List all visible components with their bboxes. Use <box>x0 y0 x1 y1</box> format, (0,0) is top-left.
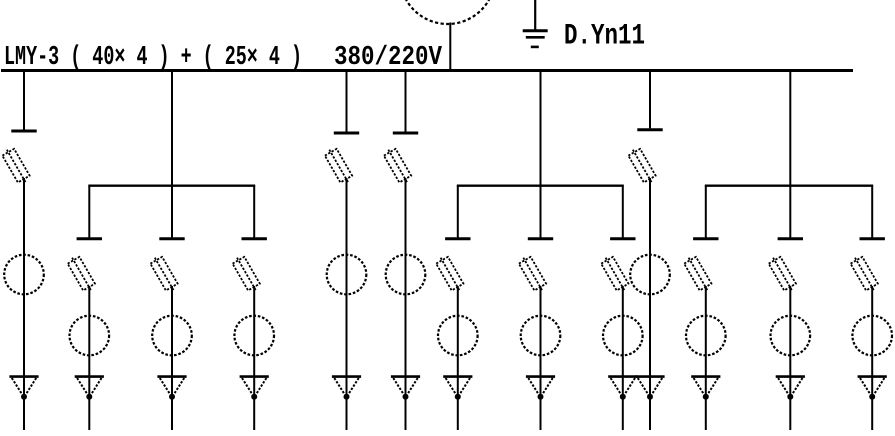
fuse FUF3 <box>849 254 880 293</box>
meter circle branch D3 <box>603 316 643 356</box>
wire branch D2 drop <box>540 186 542 238</box>
wire group D feeder drop <box>540 71 542 187</box>
load arrow feeder 5 <box>332 377 361 400</box>
wire feeder 6 main vertical <box>405 178 407 430</box>
switch contact bar feeder 7 <box>637 128 662 131</box>
fuse FUB1 <box>66 254 97 293</box>
load arrow branch F1 <box>691 377 720 400</box>
wire branch D2 main vertical <box>540 286 542 430</box>
sub-bus D <box>457 184 624 186</box>
wire branch F1 main vertical <box>705 286 707 430</box>
wire branch D3 drop <box>622 186 624 238</box>
fuse FUD2 <box>517 254 548 293</box>
meter circle branch B2 <box>152 316 192 356</box>
wire branch F2 drop <box>789 186 791 238</box>
load arrow branch B2 <box>157 377 186 400</box>
load arrow branch D3 <box>608 377 637 400</box>
load arrow branch F2 <box>776 377 805 400</box>
wire branch D1 main vertical <box>457 286 459 430</box>
load arrow branch F3 <box>858 377 887 400</box>
switch contact bar feeder 1 <box>11 130 36 133</box>
wire feeder 1 main vertical <box>23 178 25 430</box>
wire branch D3 main vertical <box>622 286 624 430</box>
fuse FU6 <box>382 146 413 185</box>
svg-text:380/220V: 380/220V <box>334 43 443 73</box>
meter circle branch F3 <box>852 316 892 356</box>
fuse FUB2 <box>149 254 180 293</box>
wire branch D1 drop <box>457 186 459 238</box>
wire branch B3 drop <box>253 186 255 238</box>
svg-text:LMY-3 ( 40× 4 ) + ( 25× 4 ): LMY-3 ( 40× 4 ) + ( 25× 4 ) <box>4 43 302 73</box>
wire feeder 7 busbar drop <box>649 71 651 128</box>
switch contact bar feeder 6 <box>393 132 418 135</box>
wire branch F1 drop <box>705 186 707 238</box>
load arrow branch D1 <box>443 377 472 400</box>
meter circle branch B3 <box>234 316 274 356</box>
load arrow feeder 1 <box>9 377 38 400</box>
switch contact bar branch F1 <box>693 237 718 240</box>
ground symbol (neutral earthing) <box>523 0 548 47</box>
wire branch F3 drop <box>871 186 873 238</box>
load arrow branch B1 <box>75 377 104 400</box>
wire branch B3 main vertical <box>253 286 255 430</box>
switch contact bar feeder 5 <box>334 132 359 135</box>
meter circle feeder 5 <box>327 255 367 295</box>
busbar LV main <box>1 69 853 72</box>
wire group F feeder drop <box>789 71 791 187</box>
meter circle branch B1 <box>70 316 110 356</box>
fuse FUD1 <box>435 254 466 293</box>
meter circle branch F1 <box>686 316 726 356</box>
wire feeder 7 main vertical <box>649 178 651 430</box>
fuse FUD3 <box>600 254 631 293</box>
wire branch B2 main vertical <box>171 286 173 430</box>
wire branch B1 main vertical <box>88 286 90 430</box>
meter circle branch F2 <box>771 316 811 356</box>
wire branch F2 main vertical <box>789 286 791 430</box>
sub-bus B <box>88 184 255 186</box>
fuse FUF2 <box>767 254 798 293</box>
load arrow branch B3 <box>240 377 269 400</box>
wire feeder 1 busbar drop <box>23 71 25 130</box>
switch contact bar branch D2 <box>528 237 553 240</box>
wire feeder 5 main vertical <box>346 178 348 430</box>
switch contact bar branch B1 <box>77 237 102 240</box>
wire feeder 5 busbar drop <box>346 71 348 132</box>
meter circle feeder 1 <box>4 255 44 295</box>
switch contact bar branch B2 <box>159 237 184 240</box>
wire branch B1 drop <box>88 186 90 238</box>
switch contact bar branch B3 <box>242 237 267 240</box>
switch contact bar branch D3 <box>610 237 635 240</box>
wire branch B2 drop <box>171 186 173 238</box>
switch contact bar branch D1 <box>445 237 470 240</box>
meter circle feeder 6 <box>386 255 426 295</box>
meter circle branch D1 <box>438 316 478 356</box>
load arrow branch D2 <box>526 377 555 400</box>
meter circle branch D2 <box>521 316 561 356</box>
fuse FU5 <box>323 146 354 185</box>
switch contact bar branch F2 <box>778 237 803 240</box>
svg-text:D.Yn11: D.Yn11 <box>564 20 645 54</box>
fuse FUF1 <box>683 254 714 293</box>
meter circle feeder 7 <box>630 255 670 295</box>
fuse FU7 <box>627 146 658 185</box>
switch contact bar branch F3 <box>860 237 885 240</box>
fuse FUB3 <box>231 254 262 293</box>
wire feeder 6 busbar drop <box>405 71 407 132</box>
sub-bus F <box>705 184 873 186</box>
load arrow feeder 7 <box>635 377 664 400</box>
fuse FU1 <box>1 146 32 185</box>
transformer T1 winding circle <box>400 0 495 24</box>
wire transformer secondary to busbar <box>449 23 451 71</box>
load arrow feeder 6 <box>391 377 420 400</box>
wire branch F3 main vertical <box>871 286 873 430</box>
wire group B feeder drop <box>171 71 173 187</box>
